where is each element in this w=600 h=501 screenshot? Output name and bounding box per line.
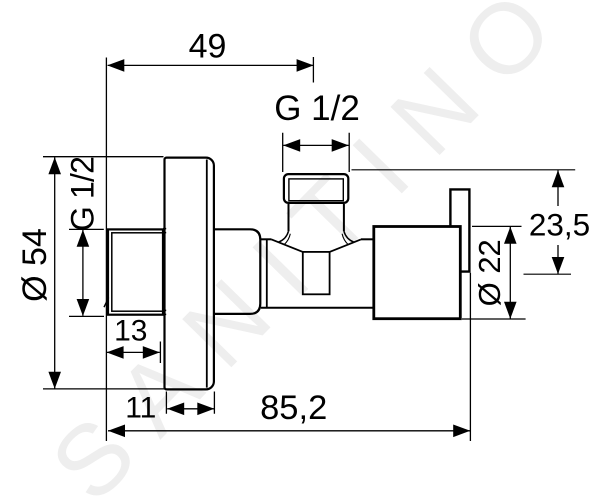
23,5 up arrow xyxy=(552,170,565,187)
dim G1/2 left line xyxy=(82,230,84,316)
body top edge right of branch xyxy=(361,238,374,240)
svg-text:23,5: 23,5 xyxy=(529,207,590,243)
svg-text:Ø 54: Ø 54 xyxy=(16,228,54,302)
dim G1/2 top line xyxy=(283,144,349,146)
85,2 left arrow xyxy=(108,425,125,438)
dimension: 49 line xyxy=(108,64,314,66)
13 right arrow xyxy=(143,346,160,359)
O22 down arrow xyxy=(504,302,517,319)
dim 11 line xyxy=(167,408,214,410)
thread end tick xyxy=(104,298,109,308)
handle block xyxy=(374,227,461,319)
11 right arrow xyxy=(197,403,214,416)
dim G1/2 left extension lines xyxy=(69,229,104,316)
G1/2 left down arrow xyxy=(77,299,90,316)
dim 85,2 right extension xyxy=(469,273,471,441)
dim 13 line xyxy=(107,351,160,353)
branch thread inner xyxy=(289,179,343,201)
left thread top lines to flange xyxy=(163,229,166,315)
svg-text:G 1/2: G 1/2 xyxy=(65,157,101,231)
inner stub rect xyxy=(303,252,330,294)
flange (rosette) xyxy=(165,158,214,390)
dim 11 extension lines xyxy=(166,392,214,414)
dim G1/2 top extension lines xyxy=(283,133,350,172)
dim O22 extension lines xyxy=(462,226,526,319)
dim O22 line xyxy=(509,227,511,319)
dim 85,2 line xyxy=(108,430,470,432)
svg-text:13: 13 xyxy=(114,315,147,348)
dim O54 line xyxy=(54,157,56,388)
O54 down arrow xyxy=(48,372,61,389)
svg-text:49: 49 xyxy=(189,27,227,65)
branch flare inner right xyxy=(342,234,348,245)
49 right arrow xyxy=(297,59,314,72)
13 left arrow xyxy=(107,346,124,359)
valley line left xyxy=(272,239,303,252)
G1/2 top left arrow xyxy=(283,139,300,152)
branch flare outer left xyxy=(279,231,289,242)
dim 13 right extension xyxy=(159,342,161,364)
branch flare inner left xyxy=(284,234,290,245)
dim 23,5 reference lines xyxy=(352,170,576,274)
body top edge left of branch xyxy=(261,238,272,240)
branch neck xyxy=(289,204,344,231)
49 left arrow xyxy=(107,59,124,72)
dimension: 49 right tick xyxy=(312,57,314,83)
left thread fitting inner xyxy=(112,233,163,311)
collar behind flange xyxy=(215,229,260,314)
branch thread outer xyxy=(284,174,348,203)
dim O54 extension lines xyxy=(43,157,166,389)
flange front face edge xyxy=(206,160,208,388)
lever tab xyxy=(450,189,469,271)
G1/2 left up arrow xyxy=(77,230,90,247)
11 left arrow xyxy=(167,403,184,416)
left thread fitting outer xyxy=(108,229,163,314)
arrowheads xyxy=(48,59,564,437)
85,2 right arrow xyxy=(453,425,470,438)
ring edge xyxy=(266,239,268,307)
dimension: 49 extension line left xyxy=(105,58,107,442)
G1/2 top right arrow xyxy=(332,139,349,152)
svg-text:85,2: 85,2 xyxy=(260,389,327,427)
O54 up arrow xyxy=(48,157,61,174)
branch flare outer right xyxy=(344,231,354,242)
23,5 down arrow xyxy=(552,257,565,274)
svg-text:11: 11 xyxy=(125,391,156,424)
valley line right xyxy=(330,239,361,252)
svg-text:Ø 22: Ø 22 xyxy=(472,239,507,306)
dim 23,5 vertical segments xyxy=(557,170,559,274)
svg-text:G 1/2: G 1/2 xyxy=(274,89,360,128)
body bottom edge xyxy=(261,307,374,309)
O22 up arrow xyxy=(504,227,517,244)
